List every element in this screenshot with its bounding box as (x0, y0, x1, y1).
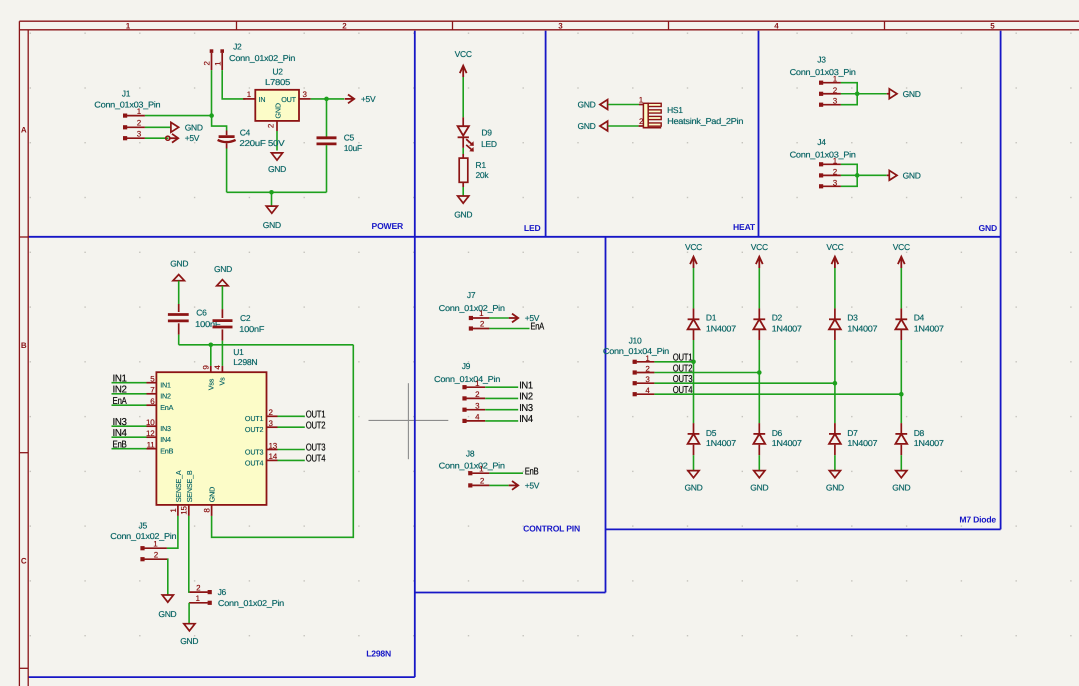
junction J3 (855, 91, 860, 96)
wire C6 to Vss rail (178, 335, 180, 345)
svg-text:IN1: IN1 (113, 373, 128, 384)
power symbol GND at J4 (887, 170, 921, 180)
svg-text:220uF 50V: 220uF 50V (239, 138, 285, 148)
junction Vss rail (209, 343, 214, 348)
wire J1.2 to GND (145, 126, 171, 128)
wire J10.3 to column 3 (654, 382, 835, 384)
svg-text:+5V: +5V (361, 94, 376, 104)
power symbol GND column 4 (892, 471, 910, 493)
J3 pin 2 (823, 86, 841, 95)
J8 pin 1 (472, 464, 489, 473)
svg-text:VCC: VCC (751, 242, 768, 252)
label IN2 (113, 384, 128, 395)
diode D8 1N4007 (895, 423, 944, 455)
wire D4 to D8 column (900, 340, 902, 423)
wire junction to U1 Vss (210, 345, 212, 366)
svg-text:LED: LED (481, 139, 497, 149)
wire D9 to R1 (462, 148, 464, 154)
label OUT3 (673, 374, 693, 385)
svg-text:D7: D7 (847, 428, 858, 438)
resistor R1 20k (459, 154, 489, 187)
svg-text:2: 2 (154, 550, 159, 559)
svg-text:Conn_01x03_Pin: Conn_01x03_Pin (94, 99, 161, 109)
svg-text:D5: D5 (706, 428, 717, 438)
svg-text:VCC: VCC (455, 49, 472, 59)
wire rail loop right side (212, 345, 354, 538)
wire J1.3 to +5V (145, 137, 168, 139)
ic U1 L298N (156, 347, 266, 505)
U1 pin 3 OUT2 (245, 419, 278, 434)
connector J1 Conn_01x03_Pin (94, 88, 161, 140)
connector J10 Conn_01x04_Pin (603, 335, 670, 396)
label EnA (113, 396, 128, 407)
J1 pin 1 (127, 107, 145, 116)
svg-text:14: 14 (269, 452, 278, 461)
wire D6 to GND (758, 455, 760, 470)
wire J8.1 to EnB (489, 472, 523, 474)
wire IN2 label to U1 (112, 393, 147, 395)
svg-text:C2: C2 (240, 313, 251, 323)
connector J9 Conn_01x04_Pin (434, 361, 501, 423)
svg-text:1N4007: 1N4007 (914, 323, 945, 333)
label GND section (979, 223, 998, 233)
J10 pin 4 (637, 386, 655, 395)
wire U1 OUT2 out (278, 426, 305, 428)
capacitor C4 220uF 50V (218, 128, 286, 149)
wire D8 to GND (900, 455, 902, 470)
svg-text:Heatsink_Pad_2Pin: Heatsink_Pad_2Pin (667, 116, 744, 126)
svg-text:L298N: L298N (233, 357, 257, 367)
regulator U2 L7805 (255, 67, 299, 121)
svg-text:2: 2 (475, 390, 480, 399)
U1 pin 13 OUT3 (245, 441, 278, 456)
power symbol VCC column 2 (751, 242, 768, 268)
svg-text:OUT4: OUT4 (306, 454, 326, 465)
label HEAT (733, 222, 756, 232)
svg-text:C: C (21, 557, 27, 566)
wire VCC to D2 (758, 268, 760, 308)
svg-text:POWER: POWER (372, 221, 404, 231)
svg-text:OUT2: OUT2 (306, 420, 326, 431)
wire J9.3 to IN3 (485, 409, 518, 411)
label IN1 (113, 373, 128, 384)
label M7 Diode (959, 515, 996, 525)
svg-text:OUT1: OUT1 (306, 410, 326, 421)
J7 pin 2 (473, 320, 490, 329)
junction on ground rail (269, 190, 274, 195)
power symbol VCC column 3 (826, 242, 843, 268)
J5 pin 1 (144, 539, 167, 548)
power symbol GND at HS1 pin2 (578, 121, 608, 131)
diode D1 1N4007 (688, 308, 737, 340)
svg-text:2: 2 (639, 117, 644, 126)
svg-text:+5V: +5V (525, 480, 540, 490)
svg-text:VCC: VCC (893, 242, 910, 252)
svg-text:1N4007: 1N4007 (914, 438, 945, 448)
wire J10.2 to column 2 (654, 372, 759, 374)
J10 pin 3 (637, 375, 655, 384)
U1 pin 7 IN2 (147, 386, 171, 401)
svg-text:VCC: VCC (685, 242, 702, 252)
wire rail to GND (271, 192, 273, 206)
wire U1 OUT1 out (278, 415, 305, 417)
svg-text:J10: J10 (629, 335, 642, 345)
svg-text:GND: GND (454, 209, 472, 219)
svg-text:IN4: IN4 (519, 414, 533, 425)
power symbol +5V at J8 (509, 480, 540, 490)
svg-text:1N4007: 1N4007 (706, 323, 737, 333)
connector J3 Conn_01x03_Pin (790, 55, 857, 107)
wire J8.2 to +5V (489, 484, 508, 486)
power symbol GND above C6 (170, 258, 188, 280)
wire J5.2 to GND (167, 559, 169, 595)
wire C5 to rail (326, 145, 328, 192)
svg-text:Vss: Vss (207, 378, 216, 390)
svg-text:J3: J3 (817, 55, 826, 65)
svg-text:HEAT: HEAT (733, 222, 756, 232)
svg-text:OUT2: OUT2 (673, 363, 693, 374)
svg-text:20k: 20k (476, 170, 490, 180)
svg-text:D6: D6 (772, 428, 783, 438)
wire J10.1 to column 1 (654, 361, 693, 363)
power symbol VCC column 4 (893, 242, 910, 268)
label OUT2 (673, 363, 693, 374)
label IN1 (519, 380, 533, 391)
label OUT2 (306, 420, 326, 431)
svg-text:VCC: VCC (826, 242, 843, 252)
svg-text:D2: D2 (772, 313, 783, 323)
J5 pin 2 (144, 550, 167, 559)
wire EnA label to U1 (112, 404, 147, 406)
capacitor C6 100nF (168, 304, 221, 335)
junction column 3 (833, 381, 838, 386)
U2 pin 3 OUT (299, 90, 311, 99)
svg-text:IN3: IN3 (113, 417, 128, 428)
wire SENSE_B to J6.2 (188, 516, 191, 592)
svg-text:IN: IN (259, 95, 266, 104)
wire VCC to D1 (693, 268, 695, 308)
svg-text:IN2: IN2 (519, 392, 533, 403)
label IN3 (519, 403, 533, 414)
svg-text:L7805: L7805 (265, 77, 291, 87)
power symbol GND at J1.2 (171, 122, 203, 132)
svg-text:1: 1 (153, 539, 158, 548)
svg-text:1N4007: 1N4007 (772, 323, 803, 333)
wire VCC to D4 (900, 268, 902, 308)
wire U2.3 to +5V (311, 98, 345, 100)
U1 pin 8 GND (202, 487, 216, 516)
diode D5 1N4007 (688, 423, 737, 455)
svg-text:OUT1: OUT1 (673, 353, 693, 364)
diode D4 1N4007 (895, 308, 944, 340)
wire U2.2 to GND (276, 131, 278, 151)
svg-text:4: 4 (475, 413, 480, 422)
J6 pin 1 (189, 594, 208, 603)
svg-text:OUT3: OUT3 (673, 374, 693, 385)
svg-text:D1: D1 (706, 313, 717, 323)
svg-text:R1: R1 (476, 160, 487, 170)
svg-text:EnA: EnA (113, 396, 128, 407)
junction J4 (855, 173, 860, 178)
HS1 pin 1 (639, 95, 644, 104)
svg-text:IN4: IN4 (113, 428, 128, 439)
svg-text:GND: GND (750, 483, 768, 493)
wire IN4 label to U1 (112, 436, 147, 438)
wire VI node to C4 (212, 116, 227, 131)
svg-text:3: 3 (475, 402, 480, 411)
J9 pin 4 (466, 413, 485, 422)
U1 pin 10 IN3 (146, 418, 171, 433)
J1 pin 3 (127, 130, 145, 139)
wire GND to HS1.2 (608, 125, 638, 127)
junction column 2 (757, 370, 762, 375)
wire J9.2 to IN2 (485, 397, 518, 399)
svg-text:EnB: EnB (160, 447, 173, 456)
U1 pin 9 Vss (202, 365, 216, 391)
wire VCC to D3 (834, 268, 836, 308)
U1 pin 15 SENSE_B (180, 470, 194, 516)
svg-text:2: 2 (342, 21, 347, 30)
svg-text:J5: J5 (139, 521, 148, 531)
J10 pin 1 (637, 354, 655, 363)
svg-text:1N4007: 1N4007 (706, 438, 737, 448)
wire EnB label to U1 (112, 448, 147, 450)
wire J7.2 to EnA (489, 328, 529, 330)
wire IN3 label to U1 (112, 425, 147, 427)
connector J8 Conn_01x02_Pin (439, 448, 506, 487)
J2 pin 2 (203, 53, 212, 70)
power symbol GND at J3 (887, 89, 921, 99)
svg-text:Conn_01x04_Pin: Conn_01x04_Pin (434, 374, 501, 384)
crosshair marker (369, 383, 449, 459)
svg-text:12: 12 (146, 429, 155, 438)
power symbol GND below J5 (158, 595, 176, 619)
svg-text:15: 15 (180, 506, 189, 515)
J4 pin 2 (823, 167, 841, 176)
svg-text:HS1: HS1 (667, 105, 683, 115)
wire D7 to GND (834, 455, 836, 470)
svg-text:SENSE_B: SENSE_B (185, 470, 194, 502)
svg-text:J9: J9 (462, 361, 471, 371)
svg-text:OUT3: OUT3 (245, 447, 264, 456)
J1 pin 2 (127, 119, 145, 128)
wire SENSE_A to J5.1 (167, 516, 178, 548)
svg-text:J1: J1 (122, 88, 131, 98)
svg-text:SENSE_A: SENSE_A (174, 470, 183, 502)
connector J5 Conn_01x02_Pin (110, 521, 177, 562)
power symbol VCC column 1 (685, 242, 702, 268)
svg-text:10uF: 10uF (344, 143, 362, 153)
U1 pin 12 IN4 (146, 429, 171, 444)
wire J2.2 down to junction (211, 70, 213, 116)
junction column 4 (899, 392, 904, 397)
svg-text:Conn_01x02_Pin: Conn_01x02_Pin (439, 461, 506, 471)
diode D3 1N4007 (829, 308, 878, 340)
svg-text:IN1: IN1 (160, 381, 171, 390)
svg-text:U1: U1 (233, 347, 244, 357)
svg-text:GND: GND (180, 636, 198, 646)
svg-text:1N4007: 1N4007 (772, 438, 803, 448)
wire J3.2 to GND (841, 93, 887, 95)
power symbol GND below J6 (180, 624, 198, 646)
wire J9.1 to IN1 (485, 386, 518, 388)
J9 pin 2 (466, 390, 485, 399)
label OUT1 (306, 410, 326, 421)
wire J4.2 to GND (841, 174, 887, 176)
J6 pin 2 (190, 583, 208, 592)
wire GND to C2 (221, 286, 223, 309)
svg-text:D4: D4 (914, 313, 925, 323)
connector J2 Conn_01x02_Pin (210, 42, 296, 64)
svg-text:L298N: L298N (366, 649, 391, 659)
label L298N section (366, 649, 391, 659)
ground rail (227, 191, 327, 193)
svg-text:Conn_01x04_Pin: Conn_01x04_Pin (603, 346, 670, 356)
svg-text:1: 1 (479, 309, 484, 318)
svg-text:CONTROL PIN: CONTROL PIN (523, 524, 580, 534)
label EnB (525, 466, 539, 477)
U1 pin 11 EnB (147, 441, 174, 456)
svg-text:OUT: OUT (281, 95, 296, 104)
wire VCC to D9 (462, 77, 464, 117)
svg-text:100nF: 100nF (239, 324, 264, 334)
svg-text:GND: GND (158, 609, 176, 619)
label IN2 (519, 392, 533, 403)
J9 pin 1 (466, 379, 485, 388)
U1 pin 2 OUT1 (245, 408, 278, 423)
U2 pin 1 IN (243, 90, 255, 99)
svg-text:M7 Diode: M7 Diode (959, 515, 996, 525)
U1 pin 14 OUT4 (245, 452, 278, 467)
label OUT4 (673, 385, 693, 396)
svg-text:1: 1 (479, 464, 484, 473)
capacitor C5 10uF (317, 132, 362, 153)
svg-text:C6: C6 (196, 308, 207, 318)
junction at +5V/C5 (324, 97, 329, 102)
svg-text:GND: GND (263, 220, 281, 230)
svg-text:J8: J8 (466, 448, 475, 458)
label OUT1 (673, 353, 693, 364)
power symbol GND bottom POWER (263, 206, 281, 230)
wires J3 bus (841, 83, 857, 105)
diode D7 1N4007 (829, 423, 878, 455)
svg-text:Conn_01x02_Pin: Conn_01x02_Pin (439, 303, 506, 313)
label OUT3 (306, 443, 326, 454)
power symbol +5V at J1.3 (166, 136, 170, 140)
svg-text:B: B (21, 341, 27, 350)
label IN4 (113, 428, 128, 439)
wire J2.1 down to U2 IN (222, 70, 245, 99)
svg-text:Conn_01x02_Pin: Conn_01x02_Pin (218, 598, 285, 608)
svg-text:GND: GND (214, 264, 232, 274)
U1 pin 5 IN1 (147, 375, 171, 390)
svg-text:Vs: Vs (218, 377, 227, 386)
J3 pin 3 (823, 97, 841, 106)
junction at VI node (209, 113, 214, 118)
svg-text:J7: J7 (467, 290, 476, 300)
frame row letters (21, 126, 27, 566)
capacitor C2 100nF (213, 309, 265, 341)
svg-text:EnB: EnB (525, 466, 539, 477)
J10 pin 2 (637, 365, 655, 374)
svg-text:10: 10 (146, 418, 155, 427)
power symbol GND column 3 (826, 471, 844, 493)
Vss rail (179, 344, 354, 346)
wire U1 OUT3 out (278, 449, 305, 451)
svg-text:D9: D9 (481, 128, 492, 138)
svg-text:GND: GND (170, 258, 188, 268)
svg-text:J2: J2 (233, 42, 242, 52)
wire D3 to D7 column (834, 340, 836, 423)
svg-text:GND: GND (273, 103, 282, 118)
svg-text:IN4: IN4 (160, 435, 171, 444)
svg-text:EnB: EnB (113, 439, 128, 450)
label OUT4 (306, 454, 326, 465)
svg-text:OUT1: OUT1 (245, 414, 264, 423)
wire J10.4 to column 4 (654, 393, 901, 395)
label CONTROL PIN (523, 524, 580, 534)
label EnA (530, 322, 544, 333)
connector J7 Conn_01x02_Pin (439, 290, 506, 331)
svg-text:1: 1 (475, 379, 480, 388)
svg-text:GND: GND (578, 100, 596, 110)
svg-text:Conn_01x03_Pin: Conn_01x03_Pin (790, 149, 857, 159)
wire D1 to D5 column (693, 340, 695, 423)
power symbol GND column 1 (685, 471, 703, 493)
wire C4 to ground rail (226, 149, 228, 193)
wires J4 bus (841, 164, 857, 186)
svg-text:OUT4: OUT4 (245, 458, 264, 467)
label IN3 (113, 417, 128, 428)
power symbol VCC in LED section (455, 49, 472, 77)
svg-text:D8: D8 (914, 428, 925, 438)
wire J9.4 to IN4 (485, 420, 518, 422)
svg-text:IN2: IN2 (113, 384, 128, 395)
wire D5 to GND (693, 455, 695, 470)
J2 pin 1 (213, 53, 222, 70)
svg-text:GND: GND (208, 487, 217, 502)
J3 pin 1 (823, 75, 841, 84)
svg-text:1N4007: 1N4007 (847, 323, 878, 333)
svg-text:Conn_01x02_Pin: Conn_01x02_Pin (110, 531, 177, 541)
svg-text:GND: GND (892, 483, 910, 493)
svg-text:GND: GND (903, 89, 921, 99)
label IN4 (519, 414, 533, 425)
label POWER (372, 221, 404, 231)
junction column 1 (691, 360, 696, 365)
svg-text:4: 4 (774, 21, 779, 30)
U1 pin 6 EnA (147, 397, 174, 412)
power symbol +5V at J7 (509, 313, 540, 323)
svg-text:IN3: IN3 (519, 403, 533, 414)
svg-text:GND: GND (979, 223, 998, 233)
wire GND to HS1.1 (608, 104, 639, 106)
connector J4 Conn_01x03_Pin (790, 137, 857, 189)
wire D2 to D6 column (758, 340, 760, 423)
diode D2 1N4007 (753, 308, 802, 340)
power symbol GND at HS1 pin1 (578, 100, 608, 110)
svg-text:GND: GND (685, 483, 703, 493)
power symbol GND below U2 (268, 153, 286, 174)
svg-text:3: 3 (558, 21, 563, 30)
svg-text:A: A (21, 126, 27, 135)
svg-text:1N4007: 1N4007 (847, 438, 878, 448)
heatsink HS1 Heatsink_Pad_2Pin (643, 103, 743, 127)
J7 pin 1 (473, 309, 490, 318)
label LED (524, 223, 541, 233)
svg-text:13: 13 (269, 441, 278, 450)
svg-text:OUT2: OUT2 (245, 425, 264, 434)
